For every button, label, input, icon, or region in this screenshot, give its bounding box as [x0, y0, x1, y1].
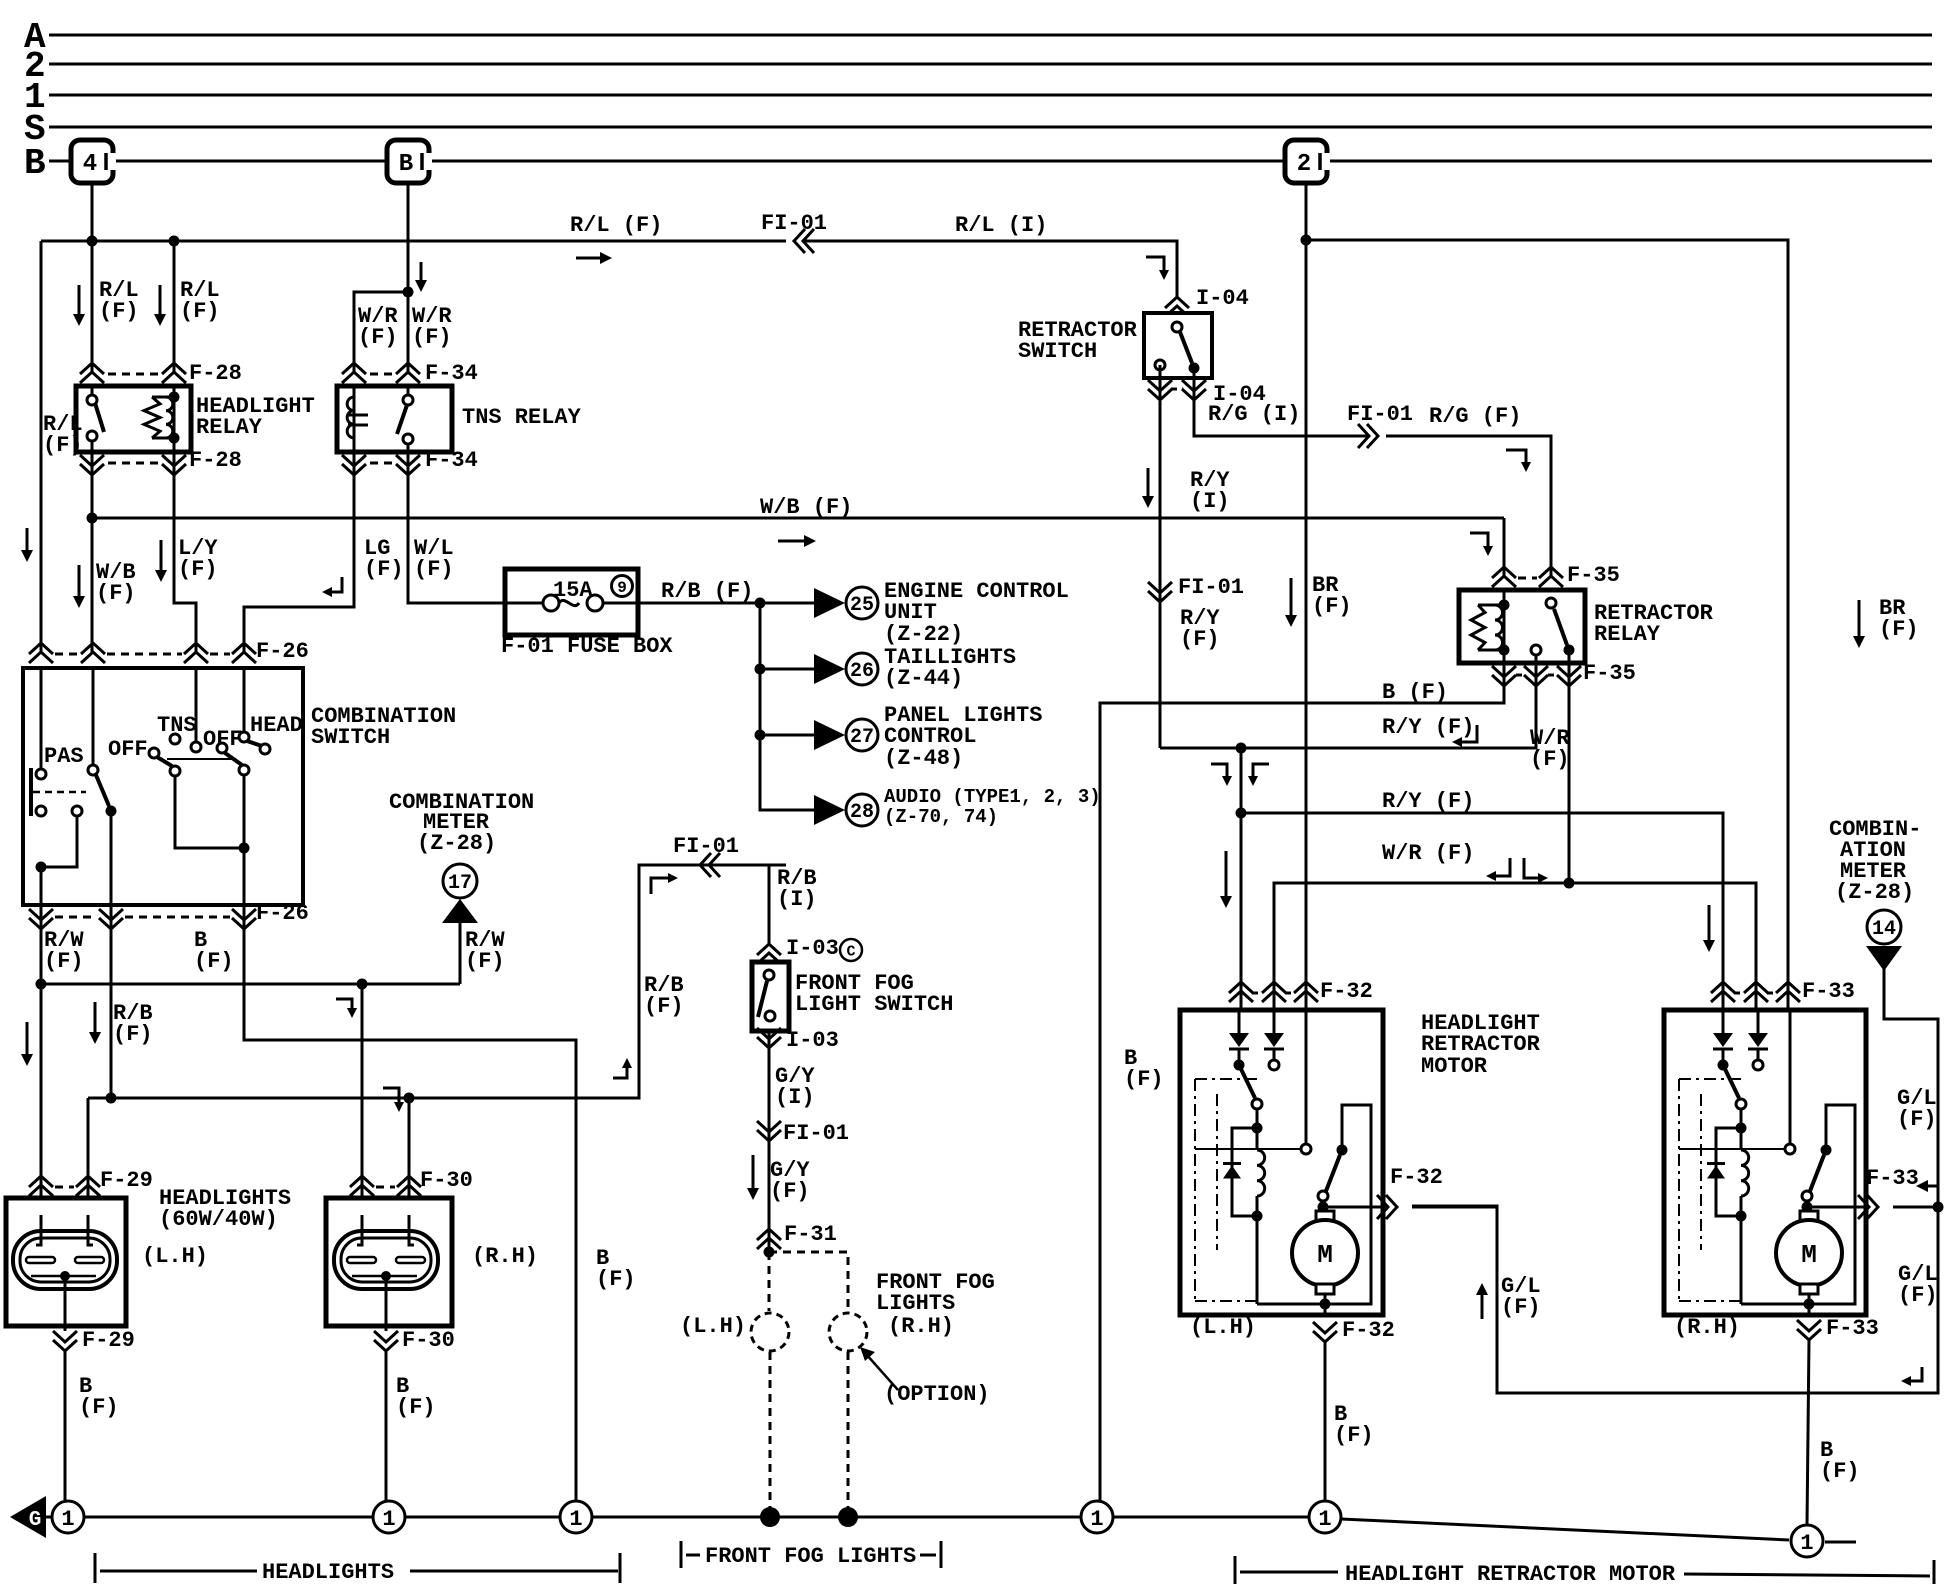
- svg-text:15A: 15A: [553, 578, 593, 603]
- bus line 2: [49, 63, 1932, 66]
- wire R/B (F) from fuse to distribution: [638, 602, 760, 605]
- wire W/L from TNS relay switch to fuse box: [408, 452, 505, 603]
- svg-text:17: 17: [448, 872, 472, 895]
- svg-text:F-32: F-32: [1342, 1318, 1395, 1343]
- wire R/Y (F) rail to R.H motor: [1241, 813, 1723, 1012]
- wire W/B (F) horizontal bus: [92, 517, 1504, 520]
- svg-text:(OPTION): (OPTION): [884, 1382, 990, 1407]
- svg-text:G: G: [29, 1509, 42, 1532]
- svg-text:2: 2: [1297, 151, 1311, 178]
- flow arrow left drop: [26, 1022, 29, 1058]
- wire LG from TNS relay coil: [244, 452, 354, 652]
- flow arrow up into fog feed: [613, 1064, 627, 1078]
- wire W/R (F) rail to R.H motor: [1569, 883, 1756, 1012]
- wire R/B rail to fog circuit: [88, 865, 786, 1098]
- wire G/Y (F) to F-31: [768, 1141, 771, 1252]
- svg-text:(60W/40W): (60W/40W): [159, 1207, 278, 1232]
- output 26 TAILLIGHTS (Z-44): [814, 654, 845, 684]
- svg-text:HEADLIGHT RETRACTOR MOTOR: HEADLIGHT RETRACTOR MOTOR: [1345, 1562, 1676, 1584]
- svg-text:C: C: [846, 943, 855, 960]
- meter terminal circled 14 with triangle: [1867, 910, 1901, 944]
- wire dashed fog R.H to ground: [847, 1352, 850, 1512]
- output 27 PANEL LIGHTS CONTROL (Z-48): [814, 720, 845, 750]
- svg-text:1: 1: [382, 1507, 395, 1532]
- ground splice fog L.H: [760, 1507, 780, 1527]
- svg-text:(F): (F): [1530, 747, 1570, 772]
- svg-text:F-29: F-29: [100, 1168, 153, 1193]
- svg-text:F-35: F-35: [1567, 563, 1620, 588]
- wire R/W (F) rail: [41, 983, 460, 986]
- connector F-29 bottom: [53, 1340, 77, 1351]
- flow arrow W/R: [420, 262, 423, 284]
- svg-text:LIGHTS: LIGHTS: [876, 1291, 955, 1316]
- flow arrow on fog feed line: [651, 878, 672, 894]
- wire from connector B down to W/R junction: [407, 183, 410, 292]
- svg-text:SWITCH: SWITCH: [311, 725, 390, 750]
- svg-text:26: 26: [850, 660, 874, 683]
- wire F-32 output to G/L: [1412, 1206, 1497, 1209]
- svg-text:(Z-44): (Z-44): [884, 666, 963, 691]
- svg-text:(Z-70, 74): (Z-70, 74): [884, 806, 998, 828]
- node R/B distribution vertical: [760, 603, 814, 810]
- svg-text:F-26: F-26: [256, 901, 309, 926]
- svg-text:(R.H): (R.H): [888, 1314, 954, 1339]
- svg-text:28: 28: [850, 801, 874, 824]
- svg-text:F-28: F-28: [189, 361, 242, 386]
- svg-text:F-32: F-32: [1390, 1165, 1443, 1190]
- bus line 1: [49, 94, 1932, 97]
- connector F-26 top row: [29, 643, 53, 654]
- svg-text:F-35: F-35: [1583, 661, 1636, 686]
- retractor switch blade: [1172, 322, 1182, 332]
- svg-text:R/G (I): R/G (I): [1208, 402, 1300, 427]
- svg-text:(F): (F): [1334, 1423, 1374, 1448]
- junction R/Y second rail: [1236, 808, 1247, 819]
- svg-text:F-34: F-34: [425, 361, 478, 386]
- svg-text:(F): (F): [596, 1267, 636, 1292]
- fog switch blade: [764, 970, 774, 980]
- junction at connector 2 branch: [1301, 235, 1312, 246]
- connector F-26 bottom row: [29, 918, 53, 929]
- connector 2 on bus B: [1285, 140, 1327, 183]
- svg-text:F-26: F-26: [256, 639, 309, 664]
- svg-text:(F): (F): [1124, 1067, 1164, 1092]
- retractor motor R.H internals: [1722, 1010, 1725, 1033]
- svg-text:(F): (F): [79, 1395, 119, 1420]
- connector I-04 top: [1165, 297, 1189, 308]
- svg-text:(F): (F): [1180, 627, 1220, 652]
- connector F-33 bottom: [1797, 1329, 1821, 1340]
- connector FI-01 on R/G wire: [1367, 424, 1378, 448]
- svg-text:(Z-28): (Z-28): [1835, 880, 1914, 905]
- svg-text:(F): (F): [1898, 1283, 1938, 1308]
- TNS relay coil: [353, 386, 356, 452]
- connector F-30: [350, 1176, 374, 1187]
- connector FI-01 on R/Y wire: [1148, 591, 1172, 602]
- svg-text:4: 4: [83, 151, 97, 178]
- flow arrow R/L (F) second drop: [159, 285, 162, 318]
- svg-text:(F): (F): [1897, 1107, 1937, 1132]
- meter terminal circled 17 with triangle: [443, 864, 477, 898]
- switch RETRACTOR SWITCH box: [1144, 313, 1212, 378]
- relay RETRACTOR RELAY box: [1459, 590, 1585, 663]
- connector FI-01 on fog feed: [700, 853, 711, 877]
- flow arrow and label L/Y (F): [160, 540, 163, 574]
- svg-text:W/B (F): W/B (F): [760, 495, 852, 520]
- svg-text:(F): (F): [99, 299, 139, 324]
- wire G/L from meter 14: [1412, 969, 1938, 1393]
- junction R/Y to motors: [1236, 743, 1247, 754]
- flow arrow and label G/Y (F): [752, 1155, 755, 1192]
- wire to panel lights arrow: [760, 734, 814, 737]
- svg-text:(F): (F): [644, 994, 684, 1019]
- switch FRONT FOG LIGHT SWITCH box: [752, 962, 789, 1031]
- ground node 1 under R.H headlight: [373, 1501, 405, 1533]
- junction fog splice: [764, 1247, 775, 1258]
- flow arrow R/L (F) first drop: [78, 285, 81, 318]
- svg-text:F-28: F-28: [189, 448, 242, 473]
- svg-text:(F): (F): [1820, 1459, 1860, 1484]
- svg-text:(R.H): (R.H): [1674, 1315, 1740, 1340]
- junction G/L at F-33 line: [1933, 1202, 1944, 1213]
- connector B on bus B: [387, 140, 429, 183]
- svg-text:(F): (F): [465, 949, 505, 974]
- svg-text:(F): (F): [194, 949, 234, 974]
- wire drop from R/W rail to R.H headlight: [361, 984, 364, 1216]
- svg-text:FRONT FOG LIGHTS: FRONT FOG LIGHTS: [705, 1544, 916, 1569]
- svg-text:1: 1: [61, 1507, 74, 1532]
- svg-text:R/Y (F): R/Y (F): [1382, 715, 1474, 740]
- wire W/B into retractor relay coil: [1503, 518, 1506, 578]
- ground node 1 under L.H motor: [1309, 1501, 1341, 1533]
- wire G/Y (I) below fog switch: [768, 1031, 771, 1141]
- wire to taillights arrow: [760, 668, 814, 671]
- svg-text:1: 1: [1800, 1531, 1813, 1556]
- wire R/Y down to L.H motor: [1240, 813, 1243, 1012]
- wire L/Y from headlight relay coil: [174, 452, 196, 652]
- TNS relay switch: [407, 386, 410, 396]
- motor HEADLIGHT RETRACTOR MOTOR L.H box: [1180, 1010, 1383, 1315]
- svg-text:AUDIO (TYPE1, 2, 3): AUDIO (TYPE1, 2, 3): [884, 786, 1101, 808]
- svg-text:(F): (F): [364, 557, 404, 582]
- fuse box F-01: [505, 569, 638, 635]
- lamp HEADLIGHT R.H box: [326, 1198, 452, 1326]
- wire W/R right branch: [407, 292, 410, 374]
- wire R/L branch down to headlight relay coil: [173, 241, 176, 374]
- svg-text:FI-01: FI-01: [761, 211, 827, 236]
- wire B (F) from switch to right: [244, 905, 576, 1512]
- bus line A: [49, 34, 1932, 37]
- svg-text:(L.H): (L.H): [142, 1244, 208, 1269]
- svg-text:(F): (F): [43, 433, 83, 458]
- svg-text:(L.H): (L.H): [680, 1314, 746, 1339]
- svg-text:(R.H): (R.H): [472, 1244, 538, 1269]
- junction R/L bus second branch: [169, 236, 180, 247]
- svg-text:TNS RELAY: TNS RELAY: [462, 405, 582, 430]
- wire to engine control unit arrow: [760, 602, 814, 605]
- svg-text:FI-01: FI-01: [1178, 575, 1244, 600]
- svg-text:14: 14: [1872, 918, 1896, 941]
- flow arrow and label W/B (F) left: [78, 565, 81, 600]
- switch COMBINATION SWITCH box: [23, 668, 303, 905]
- ground node 1 under relay B wire: [1081, 1501, 1113, 1533]
- wire R/L (F) to chevron FI-01 and R/L (I) to retractor switch: [802, 241, 1177, 297]
- svg-text:1: 1: [569, 1507, 582, 1532]
- connector 4 on bus B: [71, 140, 113, 183]
- wire R/Y (F) relay to retractor switch line: [1160, 655, 1536, 748]
- svg-text:PAS: PAS: [44, 744, 84, 769]
- svg-text:FI-01: FI-01: [783, 1121, 849, 1146]
- svg-text:(F): (F): [358, 325, 398, 350]
- lamp HEADLIGHT L.H box: [6, 1198, 126, 1326]
- svg-text:(F): (F): [396, 1395, 436, 1420]
- motor output F-32 connector: [1386, 1195, 1397, 1219]
- svg-text:(I): (I): [777, 887, 817, 912]
- flow arrow far-left drop: [26, 528, 29, 554]
- svg-text:(Z-28): (Z-28): [417, 831, 496, 856]
- ground splice fog R.H: [838, 1507, 858, 1527]
- svg-text:1: 1: [1318, 1507, 1331, 1532]
- wire from headlight relay switch down: [91, 452, 94, 654]
- flow arrow at R.H drop: [383, 1088, 399, 1106]
- flow arrow at W/B right corner: [1470, 533, 1488, 550]
- svg-text:(F): (F): [770, 1179, 810, 1204]
- wire R/B (I) down to fog switch: [768, 865, 771, 944]
- connector F-32 top: [1229, 982, 1253, 993]
- svg-text:(F): (F): [1501, 1295, 1541, 1320]
- svg-text:F-31: F-31: [784, 1222, 837, 1247]
- wire left R/L drop to combination switch PAS: [40, 241, 43, 652]
- bus line S: [49, 126, 1932, 129]
- connector F-30 bottom: [374, 1340, 398, 1351]
- output 25 ENGINE CONTROL UNIT (Z-22): [814, 588, 845, 618]
- svg-text:LIGHT SWITCH: LIGHT SWITCH: [795, 992, 953, 1017]
- wire B (F) from relay to ground drop: [1100, 663, 1504, 1501]
- svg-text:(F): (F): [414, 557, 454, 582]
- svg-text:RELAY: RELAY: [196, 415, 263, 440]
- ground node 1 under R.H motor: [1791, 1525, 1823, 1557]
- svg-text:(F): (F): [1312, 594, 1352, 619]
- svg-text:I-04: I-04: [1196, 286, 1249, 311]
- connector FI-01 on fog wire: [757, 1130, 781, 1141]
- wire B (F) L.H motor to ground: [1324, 1340, 1327, 1501]
- flow arrow and label R/B (F): [94, 1002, 97, 1036]
- svg-text:R/L (F): R/L (F): [570, 213, 662, 238]
- flow arrow long on R.H R/Y drop: [1708, 905, 1711, 944]
- wire dashed to L.H fog light: [768, 1252, 771, 1311]
- svg-text:M: M: [1801, 1240, 1817, 1270]
- connector F-34 bottom: [342, 464, 366, 475]
- flow arrow and label BR (F) left: [1290, 578, 1293, 619]
- junction R/B rail to R.H headlight: [404, 1093, 415, 1104]
- wire drop to R.H headlight right pin: [408, 1098, 411, 1216]
- junction R/W rail left: [36, 979, 47, 990]
- svg-text:(I): (I): [775, 1085, 815, 1110]
- svg-text:OFF: OFF: [108, 737, 148, 762]
- combination switch first OFF switch: [92, 668, 95, 765]
- svg-text:F-34: F-34: [425, 448, 478, 473]
- svg-text:F-29: F-29: [82, 1328, 135, 1353]
- svg-text:W/R (F): W/R (F): [1382, 841, 1474, 866]
- wire R/B from combination switch down: [110, 905, 113, 1098]
- connector F-35 top: [1492, 567, 1516, 578]
- bracket HEADLIGHTS: [94, 1553, 97, 1583]
- headlight relay switch: [91, 386, 94, 396]
- flow arrows below R/Y junction: [1211, 764, 1227, 780]
- svg-text:F-30: F-30: [402, 1328, 455, 1353]
- svg-text:(F): (F): [412, 325, 452, 350]
- junction R/B rail: [106, 1093, 117, 1104]
- ground symbol G: [10, 1496, 46, 1538]
- wire left drop to L.H headlight: [40, 984, 43, 1216]
- wire R/G (I) from retractor switch: [1194, 368, 1370, 436]
- headlight relay coil and resistor: [173, 386, 176, 452]
- svg-text:(I): (I): [1190, 489, 1230, 514]
- connector F-35 bottom: [1492, 675, 1516, 686]
- flow arrow at G/L bottom corner: [1907, 1367, 1922, 1381]
- svg-text:(F): (F): [178, 557, 218, 582]
- lamp front fog R.H: [829, 1313, 867, 1351]
- retractor motor L.H internals: [1238, 1010, 1241, 1033]
- flow arrow at R/W rail drop: [336, 999, 352, 1012]
- wire R/Y down to second rail: [1240, 748, 1243, 813]
- ground node 1 under L.H headlight: [52, 1501, 84, 1533]
- svg-text:F-30: F-30: [420, 1168, 473, 1193]
- combination switch middle blade: [149, 748, 159, 758]
- bracket FRONT FOG LIGHTS: [680, 1541, 683, 1568]
- connector I-04 bottom: [1148, 389, 1172, 400]
- connector F-32 bottom: [1313, 1331, 1337, 1342]
- svg-text:9: 9: [617, 579, 627, 597]
- wire R/G (F) to retractor relay: [1386, 436, 1551, 578]
- svg-text:25: 25: [850, 594, 874, 617]
- junction W/R split above TNS relay: [403, 287, 414, 298]
- svg-text:B (F): B (F): [1382, 680, 1448, 705]
- svg-text:RELAY: RELAY: [1594, 622, 1661, 647]
- motor output F-33 connector with arrow: [1867, 1195, 1878, 1219]
- flow arrow at R/G corner: [1506, 450, 1526, 466]
- wire B (F) R.H headlight to ground: [385, 1351, 388, 1501]
- relay TNS RELAY box: [337, 386, 452, 452]
- connector I-03 bottom: [757, 1037, 781, 1048]
- headlight L.H bulb: [13, 1231, 117, 1289]
- svg-text:B: B: [24, 143, 46, 184]
- svg-text:HEAD: HEAD: [250, 713, 303, 738]
- svg-text:R/B (F): R/B (F): [661, 579, 753, 604]
- flow arrow and label BR (F) right: [1858, 600, 1861, 640]
- ground node 1 under B wire: [560, 1501, 592, 1533]
- svg-text:1: 1: [1090, 1507, 1103, 1532]
- circled 9 fuse number: [612, 576, 633, 597]
- wire W/R (F) from relay: [1274, 663, 1569, 1012]
- svg-text:I-03: I-03: [786, 936, 839, 961]
- wire W/R left branch: [354, 292, 408, 374]
- retractor relay switch: [1546, 598, 1556, 608]
- svg-text:(F): (F): [96, 581, 136, 606]
- svg-text:27: 27: [850, 726, 874, 749]
- wire BR from connector 2 down: [1305, 183, 1308, 1012]
- connector F-28 top: [80, 363, 104, 374]
- wire R/W from combination switch down: [40, 905, 43, 984]
- svg-text:(F): (F): [180, 299, 220, 324]
- bracket HEADLIGHT RETRACTOR MOTOR: [1234, 1556, 1237, 1584]
- wire dashed fog L.H to ground: [769, 1352, 772, 1512]
- svg-text:SWITCH: SWITCH: [1018, 339, 1097, 364]
- ground rail: [46, 1516, 52, 1519]
- wire from connector 2 to far right BR drop: [1306, 240, 1788, 1012]
- wire B (F) R.H motor to ground: [1807, 1340, 1809, 1525]
- svg-text:MOTOR: MOTOR: [1421, 1054, 1488, 1079]
- svg-text:FI-01: FI-01: [673, 834, 739, 859]
- lamp front fog L.H: [751, 1313, 789, 1351]
- connector F-29: [29, 1176, 53, 1187]
- bus line B: [49, 160, 1932, 163]
- wire R/B corner down to L.H headlight: [87, 1098, 90, 1216]
- svg-text:R/L (I): R/L (I): [955, 213, 1047, 238]
- headlight R.H bulb: [334, 1231, 438, 1289]
- wire B (F) L.H headlight to ground: [64, 1351, 67, 1501]
- svg-text:B: B: [399, 151, 413, 178]
- output 28 AUDIO (TYPE1,2,3) (Z-70,74): [814, 795, 845, 825]
- wire dashed to R.H fog light: [769, 1252, 848, 1311]
- svg-text:(F): (F): [1879, 617, 1919, 642]
- svg-text:R/G (F): R/G (F): [1429, 404, 1521, 429]
- wire R/Y (I) from retractor switch: [1159, 365, 1162, 748]
- relay HEADLIGHT RELAY box: [76, 386, 191, 452]
- fuse 15A element: [505, 602, 543, 605]
- flow arrow at LG jog: [328, 577, 342, 592]
- svg-text:M: M: [1317, 1240, 1333, 1270]
- flow arrow long on R/Y drop: [1225, 851, 1228, 900]
- wire F-33 output to G/L junction: [1893, 1206, 1938, 1209]
- svg-text:R/Y (F): R/Y (F): [1382, 789, 1474, 814]
- flow arrow up and label G/L (F) middle: [1481, 1291, 1484, 1319]
- flow arrow at R/L (I) corner: [1146, 257, 1164, 274]
- svg-text:F-33: F-33: [1866, 1166, 1919, 1191]
- svg-text:(F): (F): [44, 949, 84, 974]
- flow arrow and label R/Y (I): [1147, 468, 1150, 500]
- motor HEADLIGHT RETRACTOR MOTOR R.H box: [1664, 1010, 1866, 1315]
- wire from connector 4 down: [91, 183, 94, 374]
- connector FI-01 on R/L bus: [794, 229, 805, 253]
- svg-text:I-03: I-03: [786, 1028, 839, 1053]
- connector F-31: [757, 1229, 781, 1240]
- svg-text:(Z-48): (Z-48): [884, 746, 963, 771]
- connector I-03 top: [757, 944, 781, 955]
- junction at connector-4 wire and R/L bus: [87, 236, 98, 247]
- svg-text:(F): (F): [113, 1022, 153, 1047]
- connector F-28 bottom: [80, 464, 104, 475]
- svg-text:F-33: F-33: [1802, 979, 1855, 1004]
- retractor relay coil and resistor: [1503, 590, 1506, 663]
- svg-text:(L.H): (L.H): [1190, 1315, 1256, 1340]
- svg-text:HEADLIGHTS: HEADLIGHTS: [262, 1560, 394, 1584]
- svg-text:F-01 FUSE BOX: F-01 FUSE BOX: [501, 634, 673, 659]
- connector F-33 top: [1711, 982, 1735, 993]
- svg-text:FI-01: FI-01: [1347, 402, 1413, 427]
- connector F-34 top: [342, 363, 366, 374]
- wire R/L (F) horizontal bus: [41, 240, 786, 243]
- junction R/W rail to right headlight: [357, 979, 368, 990]
- svg-text:F-32: F-32: [1320, 979, 1373, 1004]
- junction W/R rail: [1564, 878, 1575, 889]
- svg-text:F-33: F-33: [1826, 1316, 1879, 1341]
- combination switch PAS contact: [40, 668, 43, 769]
- junction W/B at relay output: [87, 513, 98, 524]
- svg-text:(Z-22): (Z-22): [884, 622, 963, 647]
